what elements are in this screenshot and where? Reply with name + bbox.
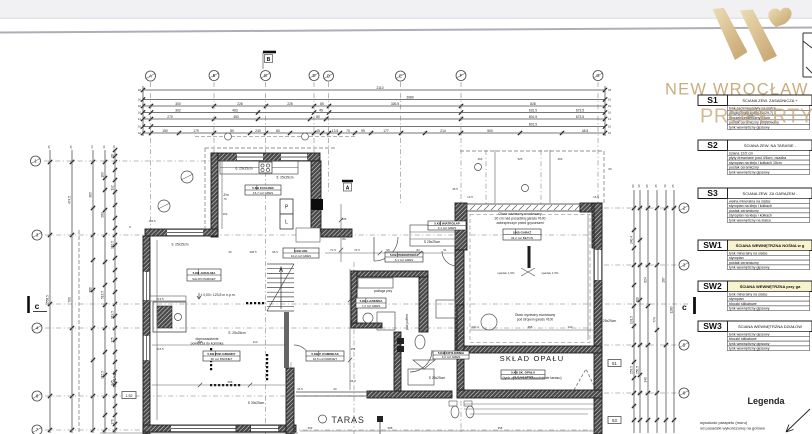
- svg-text:10: 10: [138, 131, 142, 135]
- door arc wiatrolap: [442, 251, 457, 266]
- top-right detail fragment: [803, 33, 812, 77]
- svg-text:250.5: 250.5: [636, 366, 640, 374]
- svg-text:698: 698: [388, 426, 393, 430]
- svg-text:pustak ceramiczny: pustak ceramiczny: [729, 261, 759, 265]
- svg-text:140: 140: [644, 377, 648, 383]
- svg-text:30: 30: [637, 184, 641, 188]
- svg-text:315.5: 315.5: [101, 371, 105, 379]
- fridge boxes P L: [280, 199, 293, 214]
- svg-text:podłoga przy: podłoga przy: [374, 289, 393, 293]
- terrace wall W3: [145, 229, 218, 236]
- svg-text:10,5 m2 PARKIET: 10,5 m2 PARKIET: [313, 357, 337, 361]
- svg-text:270: 270: [167, 115, 173, 119]
- svg-text:16: 16: [102, 145, 106, 149]
- svg-text:500: 500: [487, 129, 493, 133]
- svg-text:700: 700: [68, 297, 72, 303]
- svg-text:774: 774: [653, 317, 657, 323]
- svg-text:tynk mineralny na siatce: tynk mineralny na siatce: [729, 251, 768, 255]
- legend S3: [698, 188, 728, 199]
- svg-text:6. 25x25cm: 6. 25x25cm: [235, 167, 252, 171]
- svg-text:4,0 m2 GRES: 4,0 m2 GRES: [442, 355, 461, 359]
- svg-text:5.KB SK. OPAŁU: 5.KB SK. OPAŁU: [511, 370, 535, 374]
- bath right wall W8: [419, 277, 428, 332]
- svg-text:od posadzki wykończonej na got: od posadzki wykończonej na gotowo: [700, 426, 766, 431]
- svg-text:F: F: [460, 73, 463, 78]
- svg-text:16: 16: [608, 111, 612, 115]
- left dimension lines: [50, 150, 115, 433]
- svg-text:9. 25x25cm: 9. 25x25cm: [171, 243, 188, 247]
- svg-text:18: 18: [138, 88, 142, 92]
- svg-text:150: 150: [162, 129, 168, 133]
- svg-text:5.KB KUCHNIA: 5.KB KUCHNIA: [252, 186, 274, 190]
- svg-text:631.5: 631.5: [529, 108, 537, 112]
- svg-text:SW3: SW3: [703, 321, 722, 331]
- svg-text:5.KB P. KOMINKAS: 5.KB P. KOMINKAS: [311, 352, 338, 356]
- svg-text:34.5: 34.5: [350, 379, 356, 383]
- svg-text:30: 30: [663, 184, 667, 188]
- svg-text:315.5: 315.5: [156, 347, 164, 351]
- svg-text:S2: S2: [707, 140, 718, 150]
- svg-text:25: 25: [69, 145, 73, 149]
- section flag A at entrance: [342, 180, 353, 182]
- top dimension lines: [143, 90, 605, 133]
- svg-text:wełna mineralna na siatce: wełna mineralna na siatce: [729, 199, 771, 203]
- svg-text:NEW WROCŁAW: NEW WROCŁAW: [665, 81, 809, 99]
- svg-text:D: D: [327, 74, 330, 79]
- svg-text:51: 51: [612, 361, 617, 366]
- svg-text:30 cm nad posadzką garażu: 30 cm nad posadzką garażu #100: [494, 217, 545, 221]
- svg-text:101.5: 101.5: [630, 316, 634, 324]
- svg-text:S 25x25cm: S 25x25cm: [429, 376, 446, 380]
- garage right wall upper block: [592, 203, 602, 248]
- svg-text:SKŁAD OPAŁU: SKŁAD OPAŁU: [500, 354, 565, 363]
- porch steps: [410, 225, 455, 246]
- logo W slash 1: [713, 8, 748, 60]
- svg-text:pod puffem: pod puffem: [405, 314, 409, 330]
- svg-text:tynk mineralny na siatce: tynk mineralny na siatce: [729, 292, 768, 296]
- svg-text:14: 14: [90, 145, 94, 149]
- svg-text:10,2 m2 GRES: 10,2 m2 GRES: [291, 254, 311, 258]
- svg-text:83: 83: [416, 248, 420, 252]
- svg-text:80: 80: [316, 115, 320, 119]
- svg-text:ŚCIANA ZEW. NA TARASIE -: ŚCIANA ZEW. NA TARASIE -: [744, 143, 797, 148]
- logo W slash 2: [740, 10, 777, 63]
- legend S1: [698, 95, 728, 106]
- legend arrow symbol: [786, 409, 810, 432]
- garage left wall W16: [455, 203, 467, 250]
- svg-text:102.5: 102.5: [148, 219, 156, 223]
- svg-text:± 0,00= 123,8 m n.p.m.: ± 0,00= 123,8 m n.p.m.: [201, 293, 236, 297]
- garage/sklad divider W19: [457, 346, 602, 353]
- svg-text:10: 10: [112, 145, 116, 149]
- svg-text:99: 99: [361, 129, 365, 133]
- svg-text:10: 10: [608, 131, 612, 135]
- svg-text:30: 30: [333, 387, 337, 391]
- svg-text:192: 192: [111, 185, 115, 191]
- svg-text:L: L: [285, 220, 288, 226]
- svg-text:spadek 1,5%: spadek 1,5%: [497, 271, 515, 275]
- svg-text:S 25x25cm: S 25x25cm: [424, 240, 441, 244]
- svg-text:A: A: [346, 186, 350, 192]
- svg-text:5.KB PRZEDPOKÓJ: 5.KB PRZEDPOKÓJ: [390, 252, 419, 257]
- terrace steps below sklad: [464, 404, 594, 414]
- svg-text:spadek 1,5%: spadek 1,5%: [541, 271, 559, 275]
- door arc hol-living: [294, 345, 310, 361]
- legend SW2: [698, 281, 728, 292]
- svg-text:A: A: [149, 74, 152, 79]
- svg-text:13.5: 13.5: [467, 195, 473, 199]
- svg-text:14: 14: [608, 117, 612, 121]
- svg-text:3,1 m2 GRES: 3,1 m2 GRES: [438, 226, 457, 230]
- svg-text:673.5: 673.5: [576, 108, 584, 112]
- svg-text:B: B: [213, 73, 216, 78]
- svg-text:16: 16: [608, 104, 612, 108]
- kitchen right wall W12: [311, 161, 321, 231]
- chimney black block: [311, 199, 323, 210]
- svg-text:828: 828: [530, 102, 536, 106]
- svg-text:80: 80: [276, 129, 280, 133]
- svg-text:2110: 2110: [376, 86, 383, 90]
- svg-text:B: B: [267, 57, 271, 63]
- sklad bottom wall W20: [457, 390, 602, 398]
- svg-text:SW1: SW1: [703, 240, 722, 250]
- svg-text:wysokość parapetu (muru): wysokość parapetu (muru): [700, 420, 748, 425]
- garage top-right corner block: [580, 203, 602, 212]
- svg-text:5,1 m2 GRES: 5,1 m2 GRES: [395, 258, 414, 262]
- entrance front wall W15: [321, 229, 352, 237]
- svg-text:326.5: 326.5: [391, 102, 399, 106]
- page top border line: [0, 28, 812, 33]
- black dot bottom: [377, 416, 383, 422]
- svg-text:801.5: 801.5: [529, 115, 537, 119]
- svg-text:363: 363: [89, 192, 93, 198]
- svg-text:90: 90: [608, 167, 612, 171]
- roof overhang dashed outline: [79, 148, 604, 434]
- svg-text:styropian: styropian: [729, 297, 744, 301]
- stair side wall: [284, 312, 289, 368]
- svg-text:5.KB POK DZIENNY: 5.KB POK DZIENNY: [207, 352, 235, 356]
- svg-text:SALON PARKIET: SALON PARKIET: [192, 277, 216, 281]
- svg-text:474.5: 474.5: [68, 196, 72, 204]
- small circle above garage: [522, 185, 529, 192]
- svg-text:c: c: [682, 302, 687, 312]
- svg-text:45.5: 45.5: [452, 187, 458, 191]
- mid bottom wall W7: [367, 391, 452, 398]
- svg-text:228: 228: [237, 102, 243, 106]
- svg-text:45: 45: [228, 250, 232, 254]
- svg-text:SW2: SW2: [703, 281, 722, 291]
- svg-text:Otwór nawiewny montowany: Otwór nawiewny montowany: [498, 212, 541, 216]
- svg-text:5.KB JADALNIA: 5.KB JADALNIA: [193, 271, 217, 275]
- svg-text:287: 287: [662, 277, 666, 283]
- logo heart: [768, 8, 791, 27]
- boiler room bits: [436, 300, 455, 318]
- svg-text:16: 16: [138, 98, 142, 102]
- label plates on right wall: [608, 360, 621, 367]
- svg-text:70: 70: [346, 129, 350, 133]
- svg-text:2080: 2080: [406, 95, 414, 99]
- svg-text:Legenda: Legenda: [747, 396, 785, 406]
- svg-text:96.5: 96.5: [272, 250, 278, 254]
- svg-text:G: G: [596, 73, 599, 78]
- svg-text:453: 453: [233, 115, 239, 119]
- svg-text:7,2 m2 GRES: 7,2 m2 GRES: [362, 304, 381, 308]
- svg-text:25: 25: [47, 145, 51, 149]
- svg-text:801.5: 801.5: [529, 122, 537, 126]
- svg-text:213.5: 213.5: [156, 297, 164, 301]
- svg-text:5. 25x25cm: 5. 25x25cm: [276, 176, 293, 180]
- svg-text:5.KB HOL: 5.KB HOL: [294, 249, 308, 253]
- legend S2: [698, 140, 728, 151]
- svg-text:16: 16: [138, 104, 142, 108]
- svg-text:bloczki silikatowe: bloczki silikatowe: [729, 337, 757, 341]
- horizontal grid dash lines: [44, 161, 688, 430]
- svg-text:(tynk opuszczać odwodnienie ta: (tynk opuszczać odwodnienie tarasu): [502, 376, 561, 380]
- svg-text:45: 45: [654, 184, 658, 188]
- svg-text:310.5: 310.5: [111, 241, 115, 249]
- svg-text:302: 302: [175, 108, 181, 112]
- door arc bathroom: [410, 350, 432, 372]
- svg-text:380: 380: [89, 287, 93, 293]
- svg-text:14: 14: [138, 117, 142, 121]
- svg-text:ŚCIANA WEWNĘTRZNA DZIAŁOW: ŚCIANA WEWNĘTRZNA DZIAŁOW: [738, 324, 802, 329]
- svg-text:263: 263: [558, 157, 563, 161]
- svg-text:53: 53: [612, 418, 617, 423]
- bath bottom wall W11: [351, 323, 382, 328]
- svg-text:71.5: 71.5: [330, 248, 336, 252]
- svg-text:45: 45: [319, 108, 323, 112]
- svg-text:70: 70: [223, 197, 227, 201]
- svg-text:E: E: [399, 74, 402, 79]
- svg-text:S 25x25cm: S 25x25cm: [600, 319, 617, 323]
- garage top wall W17 (light): [467, 204, 580, 211]
- svg-text:110: 110: [253, 340, 258, 344]
- svg-text:80: 80: [230, 129, 234, 133]
- left outer wall W4: [143, 236, 150, 434]
- cabinet row below kitchen: [296, 228, 320, 242]
- svg-text:177: 177: [383, 129, 389, 133]
- svg-text:253.5: 253.5: [630, 366, 634, 374]
- low terrace edge: [296, 392, 367, 396]
- svg-text:179: 179: [193, 129, 199, 133]
- svg-text:170: 170: [111, 419, 115, 425]
- svg-text:16,7 m2 GRES: 16,7 m2 GRES: [253, 191, 273, 195]
- svg-text:ŚCIANA WEWNĘTRZNA NOŚNA w g: ŚCIANA WEWNĘTRZNA NOŚNA w g: [736, 243, 805, 248]
- hob box: [259, 162, 272, 173]
- svg-text:16: 16: [608, 125, 612, 129]
- svg-text:220.4: 220.4: [471, 325, 479, 329]
- bath left wall W10: [351, 271, 357, 328]
- svg-text:624: 624: [644, 277, 648, 283]
- svg-text:28: 28: [111, 154, 115, 158]
- kitchen counter: [220, 161, 298, 174]
- svg-text:95: 95: [645, 184, 649, 188]
- svg-text:698: 698: [198, 340, 203, 344]
- svg-text:214: 214: [440, 129, 446, 133]
- svg-text:240.4: 240.4: [630, 236, 634, 244]
- svg-text:styropian na kleju i kołkach: styropian na kleju i kołkach: [729, 204, 772, 208]
- bottom-left wall W5: [143, 425, 296, 432]
- svg-text:263: 263: [478, 157, 483, 161]
- svg-text:5.KB GARAŻ: 5.KB GARAŻ: [513, 229, 532, 234]
- svg-text:tynk wewnętrzny gipsowy: tynk wewnętrzny gipsowy: [729, 347, 770, 351]
- svg-text:ściana 12/2 cm: ściana 12/2 cm: [729, 151, 753, 155]
- svg-text:163: 163: [223, 212, 228, 216]
- stairs: [267, 264, 294, 311]
- svg-text:219.5: 219.5: [111, 311, 115, 319]
- svg-text:673.5: 673.5: [576, 115, 584, 119]
- svg-text:34.5: 34.5: [297, 387, 303, 391]
- wc near taras: [451, 406, 459, 418]
- grid axis circles left: [31, 156, 41, 166]
- kitchen left wall W2: [211, 153, 218, 237]
- svg-text:51: 51: [443, 248, 447, 252]
- svg-text:pustak ceramiczny: pustak ceramiczny: [729, 166, 759, 170]
- svg-text:tynk wewnętrzny gipsowy: tynk wewnętrzny gipsowy: [729, 266, 770, 270]
- svg-text:tynk wewnętrzny gipsowy: tynk wewnętrzny gipsowy: [729, 332, 770, 336]
- svg-text:48.5: 48.5: [582, 129, 589, 133]
- svg-text:74.5: 74.5: [354, 248, 360, 252]
- svg-text:80: 80: [342, 237, 346, 241]
- svg-text:254: 254: [351, 347, 356, 351]
- svg-text:D: D: [312, 73, 315, 78]
- sklad left wall W21: [457, 305, 464, 390]
- svg-text:S. 25x25cm: S. 25x25cm: [228, 331, 246, 335]
- legend SW1: [698, 240, 728, 251]
- section mark c left: [27, 296, 30, 313]
- svg-text:styropian na kleju i kołkach: styropian na kleju i kołkach: [729, 214, 772, 218]
- svg-text:TARAS: TARAS: [331, 415, 364, 425]
- svg-text:1280: 1280: [670, 306, 674, 313]
- svg-text:tynk wewnętrzny na siatce: tynk wewnętrzny na siatce: [729, 219, 771, 223]
- svg-text:zabezpieczyn przed gryzoniami: zabezpieczyn przed gryzoniami: [496, 221, 544, 225]
- svg-text:32,2 m2 BETON: 32,2 m2 BETON: [511, 236, 533, 240]
- svg-text:283: 283: [101, 212, 105, 218]
- svg-text:tynk wewnętrzny gipsowy: tynk wewnętrzny gipsowy: [729, 342, 770, 346]
- svg-text:240: 240: [255, 129, 261, 133]
- svg-text:B: B: [264, 73, 267, 78]
- svg-text:Otwór wyziewny montowany: Otwór wyziewny montowany: [515, 313, 556, 317]
- svg-text:306.5: 306.5: [249, 250, 257, 254]
- svg-text:ŚCIANA ZEW. ZA GARAŻEM -: ŚCIANA ZEW. ZA GARAŻEM -: [743, 191, 799, 196]
- svg-text:358: 358: [498, 426, 503, 430]
- bathroom fixtures: [415, 335, 425, 349]
- svg-text:S 30x25cm: S 30x25cm: [248, 401, 265, 405]
- svg-text:513.5: 513.5: [101, 291, 105, 299]
- svg-text:253: 253: [308, 426, 313, 430]
- svg-text:16: 16: [608, 98, 612, 102]
- svg-text:90: 90: [631, 184, 635, 188]
- svg-text:pustak ceramiczny: pustak ceramiczny: [729, 209, 759, 213]
- svg-text:18: 18: [608, 88, 612, 92]
- svg-text:tynk wewnętrzny gipsowy: tynk wewnętrzny gipsowy: [729, 307, 770, 311]
- small wall W8b: [394, 332, 401, 391]
- right dimension lines: [634, 190, 674, 433]
- grid axis circles right: [679, 203, 689, 213]
- svg-text:S3: S3: [707, 188, 718, 198]
- svg-text:TARAS: TARAS: [112, 373, 117, 388]
- svg-text:698: 698: [228, 380, 233, 384]
- sklad door dashed swing: [574, 369, 596, 390]
- svg-text:463: 463: [232, 108, 238, 112]
- svg-text:styropian: styropian: [729, 256, 744, 260]
- grid axis circles top: [146, 71, 156, 81]
- garage right wall W18: [594, 203, 602, 434]
- svg-text:98: 98: [386, 248, 390, 252]
- room labels: [245, 185, 281, 195]
- svg-text:płyty drewniane post 4/6cm, os: płyty drewniane post 4/6cm, osadka: [729, 156, 786, 160]
- svg-text:525: 525: [518, 157, 523, 161]
- door arc entrance: [374, 237, 398, 261]
- svg-text:pod stropem garażu #100: pod stropem garażu #100: [517, 317, 554, 321]
- fireplace: [153, 302, 186, 332]
- svg-text:300: 300: [175, 102, 181, 106]
- interior dim lines: [100, 150, 598, 433]
- svg-text:25: 25: [671, 184, 675, 188]
- svg-text:5.KB WIATROŁAP: 5.KB WIATROŁAP: [434, 221, 460, 225]
- svg-text:ŚCIANA WEWNĘTRZNA przy ga: ŚCIANA WEWNĘTRZNA przy ga: [740, 284, 801, 289]
- top grey band: [0, 0, 812, 19]
- svg-text:13.5: 13.5: [332, 129, 339, 133]
- svg-text:ŚCIANA ZEW. ZASADNICZA +: ŚCIANA ZEW. ZASADNICZA +: [742, 98, 798, 103]
- svg-text:PROPERTY: PROPERTY: [700, 106, 812, 128]
- vent circles: [181, 171, 193, 183]
- legend SW3: [698, 321, 728, 332]
- svg-text:tynk wewnętrzny gipsowy: tynk wewnętrzny gipsowy: [729, 171, 770, 175]
- lintel dashed line with markers: [195, 136, 355, 138]
- svg-text:175: 175: [111, 337, 115, 343]
- svg-text:styropian na kleju i kołkach 1: styropian na kleju i kołkach 15cm: [729, 161, 782, 165]
- vertical grid dash lines: [151, 82, 599, 434]
- svg-text:bloczki silikatowe: bloczki silikatowe: [729, 302, 757, 306]
- svg-text:5.KB ŁAZIENKA: 5.KB ŁAZIENKA: [360, 299, 384, 303]
- svg-text:358: 358: [528, 325, 533, 329]
- living right wall W6: [286, 368, 294, 434]
- svg-text:30 m2 PARKIET: 30 m2 PARKIET: [211, 357, 233, 361]
- svg-text:45: 45: [316, 129, 320, 133]
- svg-text:163: 163: [101, 172, 105, 178]
- door track bar garage: [528, 246, 531, 268]
- bath top wall W9: [351, 271, 428, 277]
- svg-text:1558.5: 1558.5: [46, 295, 50, 305]
- svg-text:16: 16: [138, 125, 142, 129]
- garage inner dashed slab outline: [470, 215, 590, 343]
- section mark B top: [263, 51, 276, 54]
- kitchen top wall W1: [211, 153, 320, 161]
- svg-text:225: 225: [287, 102, 293, 106]
- svg-text:1,52: 1,52: [126, 394, 133, 398]
- svg-text:140: 140: [568, 325, 573, 329]
- svg-text:c: c: [35, 301, 40, 311]
- svg-text:16.5: 16.5: [593, 195, 599, 199]
- svg-text:85: 85: [320, 102, 324, 106]
- svg-text:16: 16: [138, 111, 142, 115]
- svg-text:460: 460: [636, 297, 640, 303]
- duct dot runs: [210, 302, 268, 386]
